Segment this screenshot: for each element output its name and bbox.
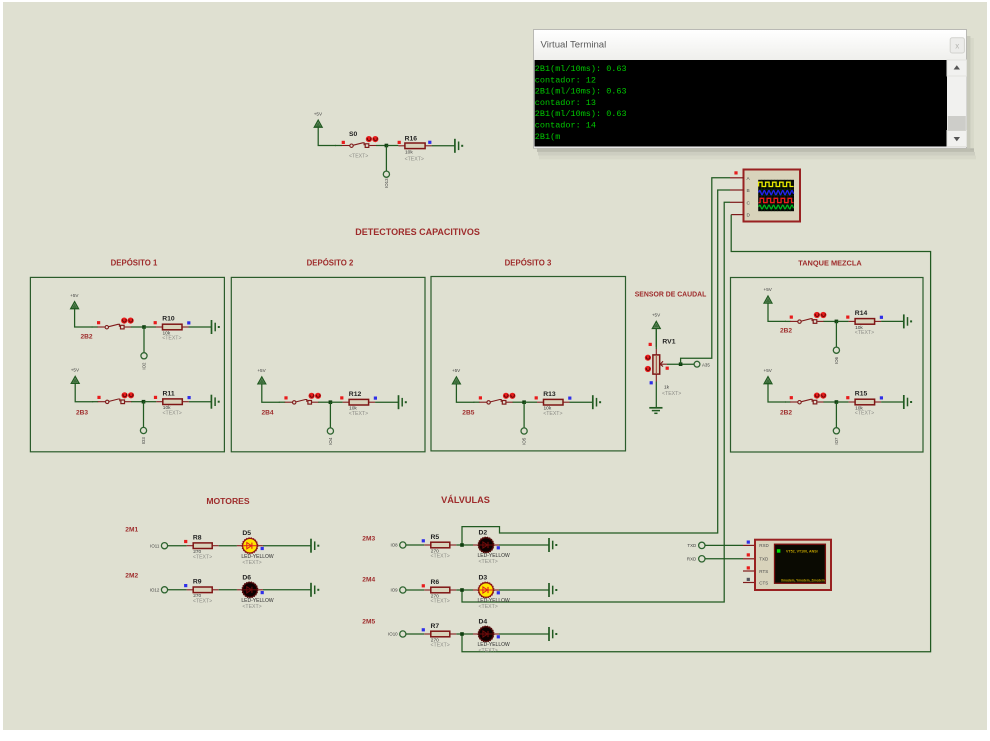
wire bbox=[375, 401, 398, 403]
svg-text:2B2: 2B2 bbox=[780, 328, 792, 335]
svg-text:2M4: 2M4 bbox=[362, 576, 375, 583]
svg-text:R7: R7 bbox=[431, 623, 440, 630]
ground bbox=[593, 395, 601, 409]
wire bbox=[570, 401, 593, 403]
resistor R10 bbox=[156, 324, 189, 330]
svg-text:SENSOR DE CAUDAL: SENSOR DE CAUDAL bbox=[635, 292, 707, 299]
ground bbox=[212, 320, 220, 334]
wire bbox=[92, 401, 98, 403]
ground bbox=[399, 395, 407, 409]
wire bbox=[524, 401, 537, 403]
power +5V (2B2 row) bbox=[764, 368, 786, 402]
terminal IO12 bbox=[150, 587, 168, 593]
svg-text:contador: 12: contador: 12 bbox=[535, 75, 596, 85]
terminal scrollbar bbox=[947, 60, 967, 147]
node junction bbox=[522, 400, 526, 404]
svg-text:<TEXT>: <TEXT> bbox=[405, 156, 424, 162]
svg-text:D5: D5 bbox=[242, 530, 251, 537]
box TANQUE MEZCLA bbox=[731, 278, 924, 453]
wire bbox=[92, 326, 98, 328]
virtual terminal component bbox=[755, 540, 831, 590]
indicator red bbox=[649, 343, 652, 346]
svg-text:DETECTORES CAPACITIVOS: DETECTORES CAPACITIVOS bbox=[355, 227, 480, 237]
svg-text:S0: S0 bbox=[349, 131, 358, 138]
resistor R11 bbox=[156, 399, 189, 405]
led D4 bbox=[478, 626, 494, 642]
svg-text:R8: R8 bbox=[193, 535, 202, 542]
svg-text:2B2: 2B2 bbox=[81, 334, 93, 341]
svg-text:DEPÓSITO 1: DEPÓSITO 1 bbox=[111, 258, 158, 267]
svg-text:2M2: 2M2 bbox=[125, 573, 138, 580]
potentiometer RV1 bbox=[653, 355, 667, 374]
wire stub bbox=[655, 374, 657, 381]
indicator red bbox=[97, 396, 100, 399]
indicator bbox=[497, 635, 500, 638]
wire bbox=[473, 401, 479, 403]
indicator red bbox=[846, 316, 849, 319]
switch 2B3 bbox=[98, 392, 134, 403]
power +5V (2B5 row) bbox=[452, 368, 474, 402]
indicator gray bbox=[747, 578, 750, 581]
switch 2B4 bbox=[285, 393, 321, 404]
box DEPOSITO 3 bbox=[431, 277, 626, 451]
led D6 bbox=[242, 582, 258, 598]
indicator bbox=[497, 591, 500, 594]
svg-text:TXD: TXD bbox=[759, 557, 769, 562]
indicator red bbox=[154, 396, 157, 399]
indicator red bbox=[479, 396, 482, 399]
wire scope C to D3 bbox=[462, 202, 744, 602]
svg-text:R6: R6 bbox=[431, 579, 440, 586]
svg-text:<TEXT>: <TEXT> bbox=[431, 643, 450, 649]
svg-text:IO6: IO6 bbox=[834, 356, 839, 364]
indicator blue bbox=[187, 321, 190, 324]
svg-text:2M1: 2M1 bbox=[125, 527, 138, 534]
wire bbox=[836, 401, 848, 403]
wire stub bbox=[655, 349, 657, 355]
wire bbox=[257, 589, 263, 591]
power +5V (2B2 row) bbox=[70, 293, 92, 327]
resistor R8 bbox=[187, 543, 219, 549]
virtual terminal window shadow bbox=[537, 36, 976, 159]
actuator bbox=[645, 355, 651, 373]
svg-text:2B4: 2B4 bbox=[262, 410, 274, 417]
switch 2B2 bbox=[790, 393, 826, 404]
indicator blue bbox=[428, 141, 431, 144]
indicator red bbox=[97, 321, 100, 324]
resistor R12 bbox=[343, 399, 376, 405]
svg-text:IO8: IO8 bbox=[391, 543, 399, 548]
svg-text:+5V: +5V bbox=[71, 368, 80, 373]
power +5V (2B2 row) bbox=[764, 287, 786, 321]
svg-text:R13: R13 bbox=[543, 391, 556, 398]
wire bbox=[836, 320, 848, 322]
wire bbox=[143, 327, 145, 353]
wire bbox=[824, 401, 837, 403]
indicator red bbox=[747, 566, 750, 569]
svg-text:<TEXT>: <TEXT> bbox=[242, 560, 261, 566]
wire bbox=[785, 401, 791, 403]
indicator red bbox=[790, 396, 793, 399]
wire bbox=[881, 320, 904, 322]
indicator bbox=[184, 540, 187, 543]
svg-text:2B3: 2B3 bbox=[76, 410, 88, 417]
svg-text:+5V: +5V bbox=[257, 368, 266, 373]
svg-text:D3: D3 bbox=[479, 575, 488, 582]
svg-text:R9: R9 bbox=[193, 579, 202, 586]
terminal IO4 bbox=[327, 428, 333, 445]
indicator bbox=[422, 539, 425, 542]
terminal IO8 bbox=[391, 542, 406, 548]
terminal IO7 bbox=[833, 428, 839, 445]
power +5V (S0 row) bbox=[314, 111, 336, 145]
svg-text:C: C bbox=[747, 200, 751, 206]
svg-text:IO12: IO12 bbox=[150, 588, 160, 593]
node junction D4 bbox=[460, 632, 464, 636]
wire bbox=[456, 544, 473, 546]
wire bbox=[494, 589, 500, 591]
svg-text:<TEXT>: <TEXT> bbox=[431, 599, 450, 605]
wire bbox=[318, 401, 330, 403]
wire bbox=[824, 320, 837, 322]
wire bbox=[131, 326, 144, 328]
led D3 bbox=[478, 582, 494, 598]
switch 2B2 bbox=[790, 312, 826, 323]
svg-text:IO9: IO9 bbox=[391, 588, 399, 593]
resistor R6 bbox=[424, 587, 456, 593]
terminal IO3 bbox=[140, 427, 146, 444]
power +5V (2B3 row) bbox=[71, 368, 93, 402]
wire bbox=[835, 402, 837, 428]
wire bbox=[257, 545, 263, 547]
svg-text:<TEXT>: <TEXT> bbox=[855, 411, 874, 417]
svg-text:<TEXT>: <TEXT> bbox=[349, 411, 368, 417]
box DEPOSITO 1 bbox=[30, 277, 224, 451]
svg-text:D: D bbox=[747, 213, 751, 219]
wire bbox=[785, 320, 791, 322]
resistor R14 bbox=[849, 319, 882, 325]
terminal screen bbox=[535, 60, 948, 147]
svg-text:<TEXT>: <TEXT> bbox=[855, 330, 874, 336]
indicator bbox=[422, 628, 425, 631]
svg-text:2M5: 2M5 bbox=[362, 619, 375, 626]
svg-text:R16: R16 bbox=[405, 136, 418, 143]
ground bbox=[649, 408, 662, 414]
svg-text:B: B bbox=[747, 188, 750, 194]
node junction D3 bbox=[460, 588, 464, 592]
svg-text:RXD: RXD bbox=[759, 543, 769, 548]
wire bbox=[705, 544, 743, 546]
node junction D2 bbox=[460, 543, 464, 547]
resistor R5 bbox=[424, 542, 456, 548]
power +5V (2B4 row) bbox=[257, 368, 279, 402]
svg-text:MOTORES: MOTORES bbox=[206, 496, 250, 506]
wire bbox=[406, 633, 424, 635]
indicator bbox=[497, 546, 500, 549]
svg-text:R11: R11 bbox=[163, 390, 175, 397]
indicator bbox=[261, 547, 264, 550]
wire bbox=[456, 633, 473, 635]
wire bbox=[523, 402, 525, 428]
svg-text:+5V: +5V bbox=[764, 368, 773, 373]
ground bbox=[455, 139, 463, 153]
wire bbox=[189, 401, 212, 403]
svg-text:contador: 14: contador: 14 bbox=[535, 121, 596, 131]
wire stub bbox=[743, 544, 755, 546]
wire bbox=[329, 402, 331, 428]
wire stub CTS bbox=[743, 582, 755, 584]
svg-text:IO3: IO3 bbox=[141, 437, 146, 445]
power +5V (RV1) bbox=[652, 313, 661, 347]
ground bbox=[311, 539, 319, 553]
switch 2B2 bbox=[97, 318, 133, 329]
terminal A35 bbox=[694, 361, 710, 367]
indicator bbox=[184, 584, 187, 587]
terminal IO10 bbox=[388, 631, 406, 637]
ground bbox=[549, 538, 557, 552]
svg-text:D4: D4 bbox=[479, 619, 488, 626]
box DEPOSITO 2 bbox=[231, 277, 425, 451]
terminal IO2 bbox=[141, 353, 147, 370]
resistor R7 bbox=[424, 631, 456, 637]
wire bbox=[385, 146, 387, 172]
ground bbox=[904, 395, 912, 409]
indicator blue bbox=[880, 316, 883, 319]
indicator red bbox=[747, 553, 750, 556]
svg-text:+5V: +5V bbox=[314, 111, 323, 116]
svg-text:DEPÓSITO 3: DEPÓSITO 3 bbox=[505, 258, 552, 267]
wire bbox=[144, 401, 157, 403]
svg-text:<TEXT>: <TEXT> bbox=[162, 336, 181, 342]
svg-text:R14: R14 bbox=[855, 310, 868, 317]
wire bbox=[189, 326, 212, 328]
wire wiper to terminal bbox=[667, 363, 694, 365]
indicator red bbox=[342, 141, 345, 144]
ground bbox=[211, 395, 219, 409]
wire bbox=[279, 401, 285, 403]
svg-text:RXD: RXD bbox=[687, 557, 696, 562]
svg-text:LED-YELLOW: LED-YELLOW bbox=[478, 553, 511, 559]
wire bbox=[386, 145, 398, 147]
node junction bbox=[679, 362, 683, 366]
svg-text:IO11: IO11 bbox=[150, 543, 160, 548]
svg-text:LED-YELLOW: LED-YELLOW bbox=[478, 598, 511, 604]
switch S0 bbox=[342, 136, 378, 147]
svg-text:D6: D6 bbox=[242, 574, 251, 581]
svg-text:+5V: +5V bbox=[70, 293, 79, 298]
svg-text:IO5: IO5 bbox=[522, 437, 527, 445]
svg-text:RV1: RV1 bbox=[662, 339, 675, 346]
indicator red bbox=[535, 396, 538, 399]
indicator blue bbox=[374, 397, 377, 400]
wire bbox=[330, 401, 342, 403]
resistor R15 bbox=[849, 399, 882, 405]
indicator red bbox=[666, 367, 669, 370]
indicator red bbox=[846, 396, 849, 399]
indicator blue bbox=[880, 396, 883, 399]
virtual terminal window bbox=[534, 30, 967, 149]
svg-text:LED-YELLOW: LED-YELLOW bbox=[241, 598, 274, 604]
indicator red bbox=[340, 396, 343, 399]
wire bbox=[655, 382, 657, 408]
wire bbox=[144, 326, 156, 328]
svg-text:1k: 1k bbox=[664, 385, 670, 391]
indicator blue bbox=[568, 397, 571, 400]
terminal IO13 bbox=[383, 171, 389, 188]
wire scope B to D2 bbox=[462, 190, 744, 545]
node junction bbox=[385, 144, 389, 148]
indicator red bbox=[154, 321, 157, 324]
node junction bbox=[329, 400, 333, 404]
indicator blue bbox=[747, 541, 750, 544]
svg-text:x: x bbox=[955, 42, 959, 51]
node junction bbox=[142, 325, 146, 329]
svg-text:2B1(ml/10ms): 0.63: 2B1(ml/10ms): 0.63 bbox=[535, 64, 627, 74]
svg-text:A35: A35 bbox=[702, 362, 710, 367]
wire bbox=[432, 145, 455, 147]
svg-text:IO2: IO2 bbox=[142, 362, 147, 370]
wire bbox=[376, 145, 386, 147]
svg-text:VÁLVULAS: VÁLVULAS bbox=[441, 494, 490, 505]
oscilloscope bbox=[744, 170, 801, 222]
wire bbox=[168, 589, 187, 591]
wire bbox=[219, 545, 237, 547]
ground bbox=[549, 583, 557, 597]
svg-text:R15: R15 bbox=[855, 391, 868, 398]
svg-text:D2: D2 bbox=[479, 530, 488, 537]
svg-text:IO10: IO10 bbox=[388, 632, 398, 637]
wire bbox=[143, 402, 145, 428]
wire bbox=[494, 633, 500, 635]
resistor R13 bbox=[537, 399, 570, 405]
svg-text:<TEXT>: <TEXT> bbox=[242, 604, 261, 610]
wire stub bbox=[743, 558, 755, 560]
wire bbox=[513, 401, 525, 403]
svg-text:TANQUE MEZCLA: TANQUE MEZCLA bbox=[798, 258, 862, 267]
wire bbox=[655, 329, 657, 350]
wire scope A to RV1 bbox=[681, 178, 744, 364]
wire stub RTS bbox=[743, 570, 755, 572]
wire bbox=[705, 558, 743, 560]
svg-text:LED-YELLOW: LED-YELLOW bbox=[241, 554, 274, 560]
wire bbox=[456, 589, 473, 591]
ground bbox=[904, 314, 912, 328]
indicator red bbox=[398, 141, 401, 144]
node junction bbox=[142, 400, 146, 404]
wire bbox=[335, 145, 342, 147]
svg-text:Virtual Terminal: Virtual Terminal bbox=[541, 40, 607, 51]
terminal IO6 bbox=[833, 347, 839, 364]
led D2 bbox=[478, 537, 494, 553]
svg-text:IO7: IO7 bbox=[834, 437, 839, 445]
terminal IO5 bbox=[521, 428, 527, 445]
indicator red bbox=[790, 316, 793, 319]
svg-text:2B1(ml/10ms): 0.63: 2B1(ml/10ms): 0.63 bbox=[535, 109, 627, 119]
ground bbox=[311, 583, 319, 597]
svg-text:2B1(ml/10ms): 0.63: 2B1(ml/10ms): 0.63 bbox=[535, 87, 627, 97]
terminal IO11 bbox=[150, 543, 168, 549]
svg-text:DEPÓSITO 2: DEPÓSITO 2 bbox=[307, 258, 354, 267]
svg-text:10k: 10k bbox=[405, 149, 413, 155]
svg-text:2B2: 2B2 bbox=[780, 410, 792, 417]
indicator blue bbox=[650, 381, 653, 384]
svg-text:TXD: TXD bbox=[687, 543, 696, 548]
led D5 bbox=[242, 538, 258, 554]
indicator blue bbox=[188, 396, 191, 399]
svg-text:2M3: 2M3 bbox=[362, 535, 375, 542]
terminal TXD bbox=[687, 542, 705, 548]
resistor R16 bbox=[398, 143, 431, 149]
indicator red bbox=[734, 171, 737, 174]
terminal IO9 bbox=[391, 587, 406, 593]
wire bbox=[219, 589, 237, 591]
svg-text:2B5: 2B5 bbox=[462, 410, 474, 417]
wire scope D to D4 bbox=[462, 215, 931, 652]
svg-text:<TEXT>: <TEXT> bbox=[662, 391, 681, 397]
svg-text:<TEXT>: <TEXT> bbox=[193, 598, 212, 604]
svg-text:R12: R12 bbox=[349, 391, 362, 398]
svg-text:<TEXT>: <TEXT> bbox=[543, 411, 562, 417]
svg-text:LED-YELLOW: LED-YELLOW bbox=[478, 642, 511, 648]
svg-text:IO4: IO4 bbox=[328, 437, 333, 445]
svg-text:R10: R10 bbox=[162, 316, 175, 323]
svg-text:<TEXT>: <TEXT> bbox=[193, 554, 212, 560]
node junction bbox=[835, 400, 839, 404]
indicator bbox=[422, 584, 425, 587]
svg-text:+5V: +5V bbox=[452, 368, 461, 373]
wire bbox=[494, 544, 500, 546]
svg-text:<TEXT>: <TEXT> bbox=[479, 604, 498, 610]
svg-text:<TEXT>: <TEXT> bbox=[431, 554, 450, 560]
wire bbox=[835, 321, 837, 347]
svg-text:IO13: IO13 bbox=[384, 178, 389, 188]
wire bbox=[168, 545, 187, 547]
svg-text:+5V: +5V bbox=[764, 287, 773, 292]
svg-text:Xmodem, Ymodem, Zmodem: Xmodem, Ymodem, Zmodem bbox=[781, 579, 825, 583]
ground bbox=[549, 627, 557, 641]
switch 2B5 bbox=[479, 393, 515, 404]
wire bbox=[406, 589, 424, 591]
node junction bbox=[835, 320, 839, 324]
svg-text:VT52, VT100, ANSI: VT52, VT100, ANSI bbox=[786, 550, 818, 554]
svg-text:+5V: +5V bbox=[652, 313, 661, 318]
indicator red bbox=[284, 396, 287, 399]
wire bbox=[131, 401, 143, 403]
indicator bbox=[261, 591, 264, 594]
resistor R9 bbox=[187, 587, 219, 593]
svg-text:<TEXT>: <TEXT> bbox=[349, 154, 368, 160]
svg-text:CTS: CTS bbox=[759, 580, 768, 585]
svg-text:<TEXT>: <TEXT> bbox=[163, 410, 182, 416]
svg-text:<TEXT>: <TEXT> bbox=[479, 559, 498, 565]
terminal RXD bbox=[687, 556, 705, 562]
svg-text:contador: 13: contador: 13 bbox=[535, 98, 596, 108]
svg-text:RTS: RTS bbox=[759, 569, 768, 574]
svg-text:R5: R5 bbox=[431, 534, 440, 541]
svg-text:2B1(m: 2B1(m bbox=[535, 132, 561, 142]
svg-text:<TEXT>: <TEXT> bbox=[479, 648, 498, 654]
wire bbox=[881, 401, 904, 403]
wire bbox=[406, 544, 424, 546]
